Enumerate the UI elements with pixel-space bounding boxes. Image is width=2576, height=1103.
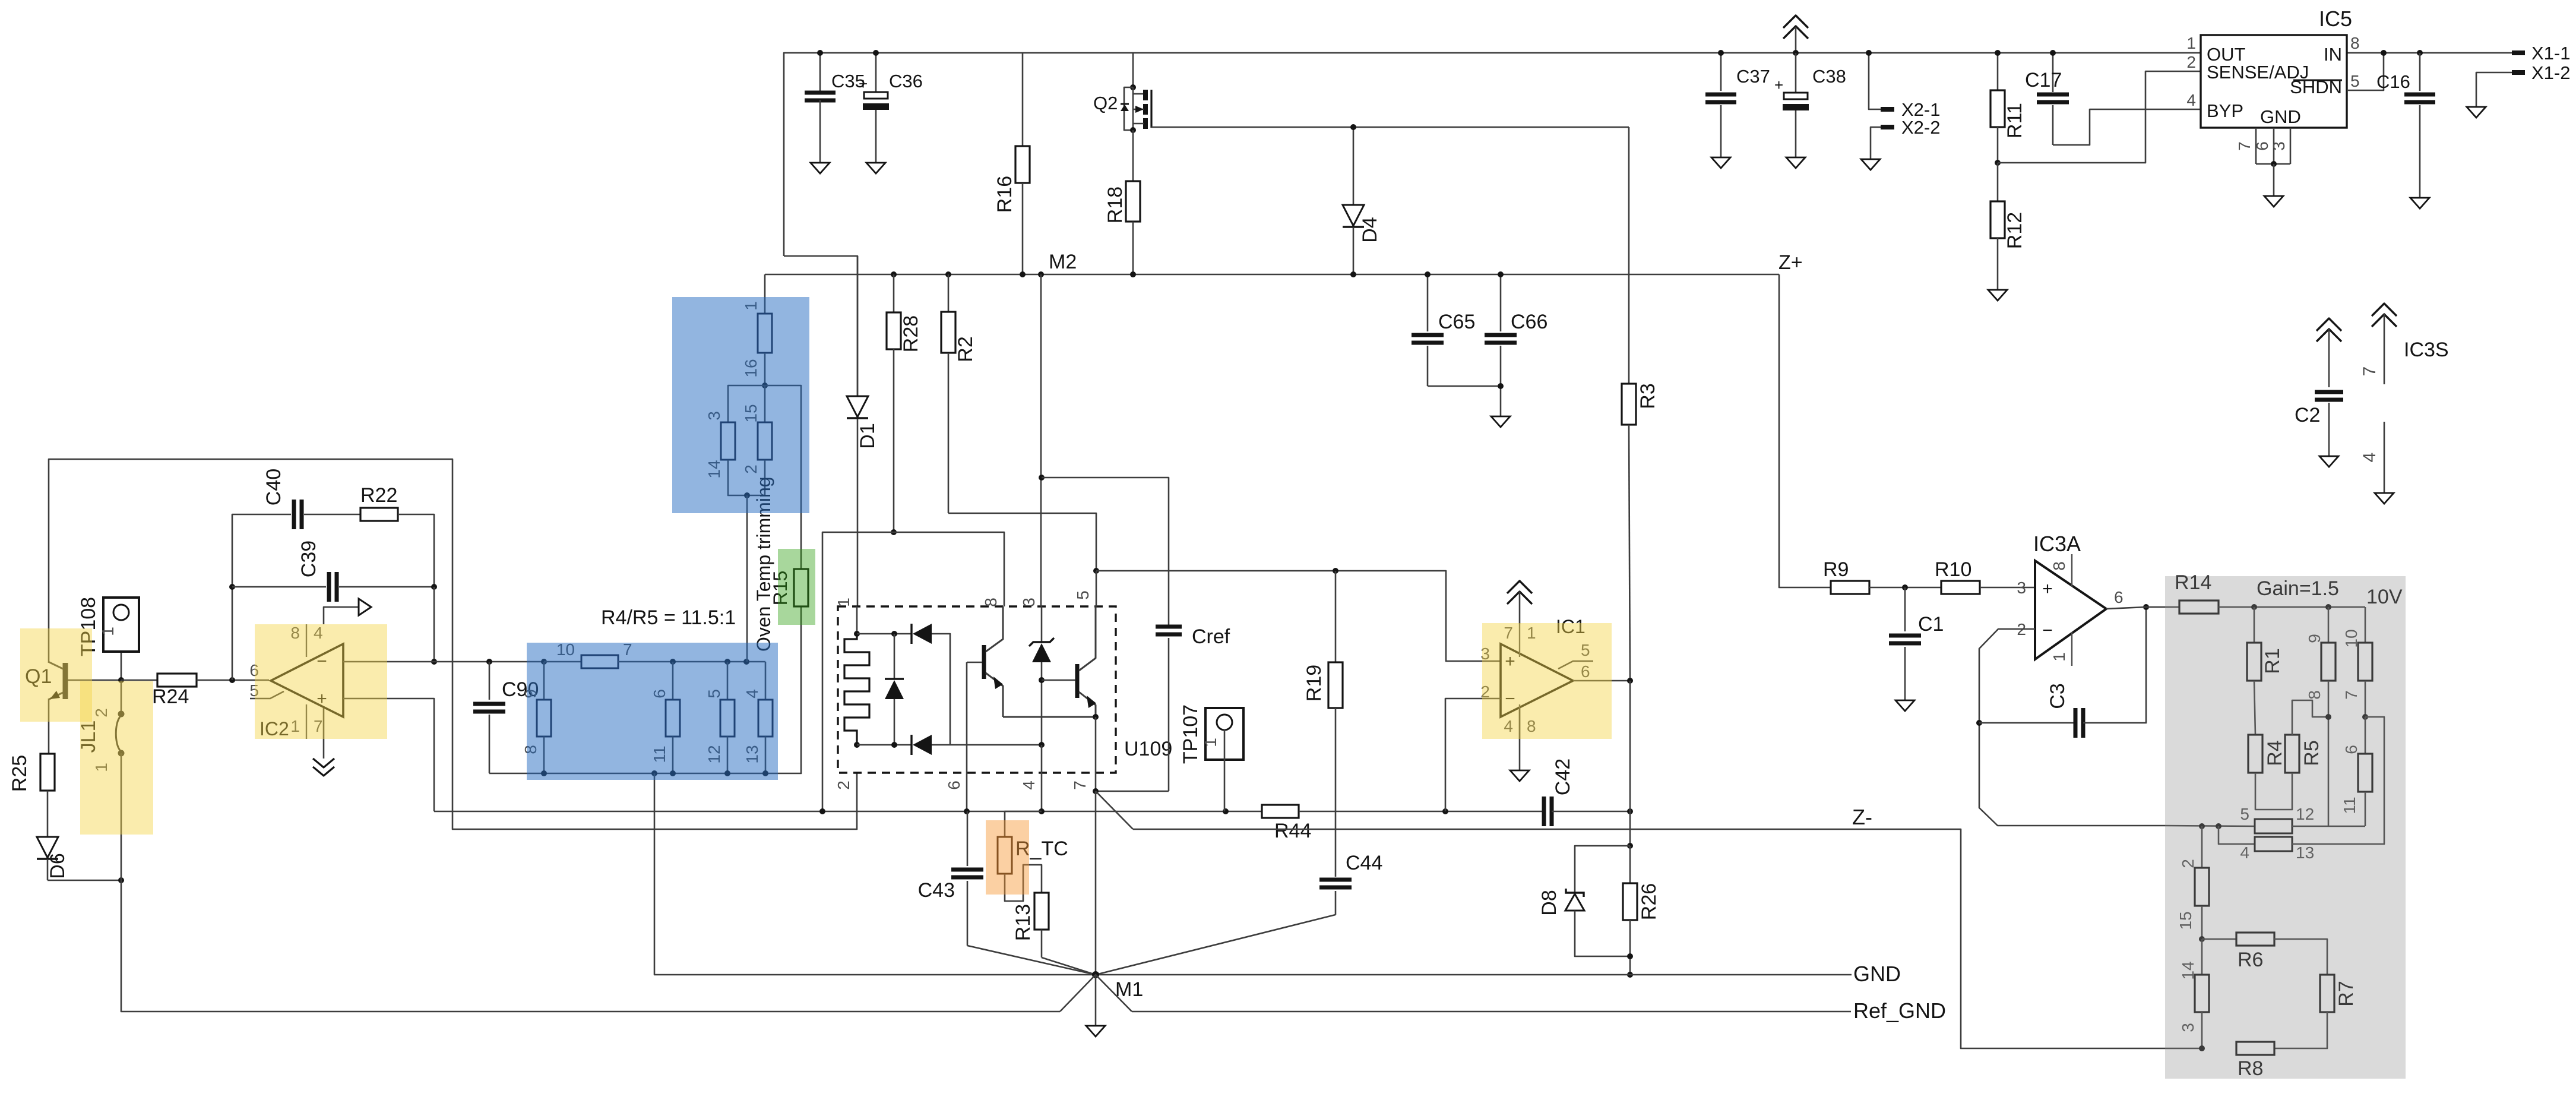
svg-text:C40: C40 [262, 469, 285, 505]
ground X1-2 [2467, 107, 2486, 118]
svg-text:BYP: BYP [2207, 100, 2243, 121]
wire pin5 node to IC1 noninverting [1096, 571, 1501, 661]
power arrow top rail [1783, 15, 1808, 28]
svg-text:R10: R10 [1935, 558, 1971, 581]
wire Cref to pin7 node [1096, 791, 1169, 792]
resistor R3 [1628, 127, 1630, 384]
resistor network RN pins 10-7 [541, 659, 547, 665]
resistor R8 [2236, 1042, 2274, 1055]
ground IC3S [2375, 493, 2394, 504]
U109 heater resistor [856, 606, 858, 634]
resistor R26 [1629, 846, 1631, 883]
svg-text:+: + [1774, 76, 1783, 94]
svg-text:1: 1 [834, 598, 853, 607]
wire R2 to U109 pin5 node [948, 513, 1096, 571]
svg-text:IC3A: IC3A [2033, 532, 2081, 556]
capacitor C39 [229, 584, 235, 590]
highlight yellow Q1 [20, 628, 92, 722]
node IC2 output [229, 677, 235, 683]
connector X1-2 [2476, 72, 2512, 107]
wire inverting net to R network [434, 661, 544, 663]
resistor R14 [2146, 606, 2179, 608]
wire U109 pin5 node [1093, 568, 1099, 574]
U109 internal top rail [857, 633, 911, 635]
wire rail corner to D1 feed [784, 256, 857, 396]
svg-text:U109: U109 [1124, 738, 1172, 760]
wire net M2 / Z+ [765, 274, 1779, 276]
resistor RN2 pins 6-11 [2365, 717, 2366, 754]
ground X2-2 [1861, 159, 1880, 170]
resistor R18 [1132, 130, 1134, 181]
svg-text:1: 1 [2050, 652, 2068, 662]
wire R5 top jog [2292, 700, 2328, 735]
highlight blue RN lower [527, 643, 778, 780]
resistor network RN pins 6-11 [672, 662, 674, 700]
svg-text:GND: GND [1853, 962, 1901, 986]
svg-text:+: + [2042, 579, 2053, 599]
connector X1-1 [2512, 50, 2525, 55]
wire feedback to inverting input [433, 587, 435, 662]
svg-text:Ref_GND: Ref_GND [1853, 998, 1946, 1023]
connector X2-1 [1869, 53, 1881, 109]
wire pin3 node to Cref [1039, 475, 1045, 481]
svg-text:R26: R26 [1638, 883, 1660, 920]
resistor RN2 pins 4-13 [2219, 826, 2255, 844]
resistor R44 [1262, 805, 1299, 818]
wire D6 to JL1 node [48, 880, 121, 881]
diode D8 (zener) [1575, 846, 1630, 893]
wire pin13 to 10-7 chain [2292, 717, 2384, 844]
capacitor C16 [2417, 50, 2423, 56]
svg-text:R24: R24 [152, 685, 189, 708]
resistor R2 [945, 271, 951, 277]
resistor RN2 pins 2-15 [2201, 826, 2203, 868]
node M1 [1092, 971, 1099, 978]
svg-text:−: − [2042, 621, 2053, 640]
wire SHDN pin5 tie to IN [2347, 53, 2384, 90]
svg-text:IC5: IC5 [2319, 7, 2352, 31]
svg-text:X1-2: X1-2 [2531, 62, 2570, 83]
power flag IC2 pin4 [324, 607, 359, 624]
svg-text:R44: R44 [1274, 820, 1311, 842]
svg-text:X2-2: X2-2 [1901, 117, 1940, 138]
highlight yellow IC1 [1482, 623, 1612, 739]
ground C65 C66 [1491, 416, 1510, 427]
svg-text:R2: R2 [954, 336, 977, 362]
svg-text:C44: C44 [1346, 852, 1382, 874]
svg-text:GND: GND [2260, 106, 2301, 127]
resistor RN2 pins 14-3 [2201, 939, 2203, 975]
svg-text:C36: C36 [889, 71, 923, 91]
resistor R19 [1333, 568, 1338, 574]
ground IC5 [2264, 196, 2283, 207]
wire Ref_GND right [1132, 1011, 1851, 1013]
svg-text:7: 7 [2360, 366, 2379, 377]
diode D6 [37, 837, 58, 858]
power arrow IC3S pin7 [2372, 304, 2397, 316]
power arrow IC1 [1507, 581, 1532, 593]
svg-text:C2: C2 [2295, 404, 2320, 426]
wire pin7 to Z- line [1096, 791, 1133, 829]
svg-text:Z-: Z- [1852, 805, 1872, 829]
svg-text:R28: R28 [900, 315, 922, 352]
resistor R6 [2202, 938, 2236, 940]
ground C1 [1895, 700, 1914, 711]
svg-text:4: 4 [2186, 91, 2196, 109]
svg-text:8: 8 [2350, 34, 2360, 52]
U109 transistor T2 [1075, 664, 1080, 698]
capacitor C90 [489, 662, 490, 700]
svg-text:D8: D8 [1538, 890, 1561, 915]
resistor network RN pins 1-16 [758, 314, 772, 353]
svg-text:IC3S: IC3S [2404, 339, 2449, 361]
svg-text:R25: R25 [8, 755, 31, 792]
svg-text:TP107: TP107 [1179, 704, 1202, 764]
wire IC1 output [1573, 680, 1630, 682]
resistor RN2 pins 5-12 [2255, 819, 2292, 833]
resistor R24 [121, 680, 157, 681]
ground C36 [866, 163, 885, 173]
resistor R12 [1995, 160, 2001, 166]
resistor R4 [2254, 681, 2255, 735]
diode D1 [857, 256, 859, 396]
svg-text:X1-1: X1-1 [2531, 43, 2570, 64]
resistor R22 [304, 514, 360, 516]
resistor R10 [1941, 581, 1980, 594]
capacitor C3 [1979, 722, 2075, 724]
svg-text:R18: R18 [1104, 187, 1126, 223]
highlight green R15 [778, 549, 815, 625]
capacitor C42 [1542, 797, 1546, 826]
wire GND line [1096, 974, 1852, 976]
svg-text:D4: D4 [1359, 217, 1381, 242]
svg-text:C43: C43 [918, 879, 955, 902]
resistor network RN pins 4-13 [765, 662, 767, 700]
wire IC2 inverting input pin2 [343, 661, 434, 663]
svg-text:C65: C65 [1438, 311, 1475, 333]
svg-text:C42: C42 [1552, 758, 1574, 795]
resistor network RN pins 9-8 [543, 662, 545, 700]
svg-text:C39: C39 [298, 541, 320, 577]
capacitor C1 [1902, 584, 1908, 590]
op-amp IC1 [1501, 644, 1573, 717]
resistor network RN pins 3-14 [728, 385, 765, 422]
wire C17 to BYP pin4 [2053, 109, 2200, 145]
wire IC3A inverting input [1979, 629, 2165, 826]
resistor RN2 pins 9-8 [2325, 604, 2331, 610]
transistor Q1 (NPN) [63, 663, 68, 699]
svg-text:R11: R11 [2004, 103, 2026, 138]
capacitor C36 (polarized) [875, 53, 877, 92]
resistor R15 [765, 385, 801, 569]
wire T1 emitter to T2 emitter [1003, 716, 1096, 718]
capacitor C43 [967, 811, 969, 866]
wire IC2 pin5 stub [250, 691, 284, 699]
svg-text:1: 1 [1201, 738, 1220, 747]
svg-text:C3: C3 [2046, 683, 2069, 709]
svg-text:2: 2 [834, 780, 853, 790]
svg-text:2: 2 [2186, 53, 2196, 71]
wire M2 to RN pin1 [764, 274, 766, 314]
wire Ref_GND diagonals [1060, 975, 1132, 1012]
svg-text:8: 8 [2050, 561, 2068, 571]
resistor R25 [48, 709, 50, 754]
svg-text:C37: C37 [1736, 66, 1770, 87]
wire IC1 output down [1629, 681, 1631, 846]
capacitor C2 [2315, 390, 2343, 394]
svg-text:4: 4 [2360, 453, 2379, 463]
capacitor C17 [2052, 53, 2054, 92]
wire R4 R5 bottoms [2255, 773, 2292, 810]
wire Q1 collector loop to U109 pin2 [49, 459, 857, 829]
svg-text:R3: R3 [1637, 383, 1659, 409]
wire RN bottom rail [544, 606, 801, 773]
svg-text:D6: D6 [46, 853, 69, 878]
wire IC2 noninverting input pin3 [343, 699, 434, 811]
wire Ref_GND left [121, 880, 1060, 1012]
wire RN bottom to GND line [654, 773, 1096, 975]
U109 pin4 lead [1041, 745, 1043, 811]
wire Z+ drop to R9 [1779, 274, 1831, 587]
dashed box U109 [838, 606, 1116, 773]
svg-text:C17: C17 [2025, 69, 2062, 91]
capacitor C38 (polarized) [1793, 50, 1799, 56]
resistor R9 [1831, 581, 1869, 594]
svg-text:Z+: Z+ [1778, 251, 1803, 274]
wire feedback loop [232, 514, 291, 680]
ground C16 [2410, 198, 2429, 208]
ground C2 [2319, 456, 2338, 467]
capacitor C44 [1319, 878, 1352, 882]
U109 pin6 lead [966, 662, 968, 811]
svg-text:R19: R19 [1303, 665, 1325, 701]
connector X2-2 [1871, 127, 1881, 159]
U109 upper diode [913, 624, 932, 644]
svg-text:R4/R5 = 11.5:1: R4/R5 = 11.5:1 [601, 606, 736, 629]
U109 lower diode [857, 744, 911, 746]
capacitor C35 [819, 53, 821, 93]
svg-text:R13: R13 [1012, 904, 1034, 941]
svg-text:Q2: Q2 [1093, 93, 1118, 113]
highlight yellow JL1 [80, 681, 153, 835]
svg-text:R16: R16 [993, 176, 1016, 213]
svg-text:3: 3 [2270, 141, 2288, 151]
svg-text:C1: C1 [1918, 613, 1944, 636]
ground C37 [1711, 157, 1730, 168]
svg-text:R22: R22 [360, 484, 397, 507]
diode D4 [1353, 127, 1355, 205]
svg-text:5: 5 [1074, 590, 1092, 600]
U109 transistor T1 [982, 645, 986, 679]
svg-text:C66: C66 [1511, 311, 1548, 333]
wire R_TC to R13 [1005, 865, 1042, 901]
capacitor C66 [1500, 274, 1502, 331]
resistor R28 [891, 271, 897, 277]
svg-text:7: 7 [2235, 141, 2254, 151]
svg-text:C38: C38 [1812, 66, 1846, 87]
IC5 ground pins 7 6 3 [2255, 128, 2257, 164]
wire Q2 gate to R3 top [1151, 127, 1629, 128]
wire U109 pin3 to M2 [1038, 271, 1044, 277]
ground C35 [811, 163, 830, 173]
wire network feedback row [2165, 826, 2254, 826]
ground IC1 pin8 [1519, 708, 1521, 770]
svg-text:M1: M1 [1115, 978, 1143, 1001]
testpoint TP107 [1205, 708, 1243, 760]
capacitor C37 [1720, 53, 1722, 91]
wire C43 to M1 [967, 946, 1096, 975]
svg-text:+: + [859, 75, 868, 93]
svg-text:R9: R9 [1823, 558, 1849, 581]
highlight orange R_TC [986, 820, 1029, 895]
supply symbol IC3S pin4 [2384, 422, 2385, 493]
wire IC1 inverting input [1445, 699, 1501, 811]
resistor network RN pins 5-12 [727, 662, 729, 700]
resistor RN2 pins 10-7 [2365, 607, 2366, 643]
resistor R16 [1022, 53, 1024, 146]
op-amp IC3A [2035, 561, 2106, 659]
wire C3 to output [2083, 607, 2146, 723]
jumper JL1 [118, 677, 124, 683]
wire Z- net [1133, 829, 2202, 1048]
resistor R7 [2320, 975, 2334, 1012]
capacitor Cref [1156, 625, 1182, 629]
ground M1 [1095, 975, 1097, 1026]
ground C38 [1786, 157, 1805, 168]
resistor R13 [1034, 893, 1049, 930]
svg-text:R12: R12 [2004, 212, 2026, 249]
wire pin7 to M1 [1095, 791, 1097, 975]
testpoint TP108 [121, 622, 122, 680]
resistor R11 [1997, 53, 1999, 90]
wire IC1 pin5 stub [1558, 661, 1593, 669]
svg-text:IN: IN [2324, 44, 2342, 65]
wire feedback net R44/C42 [434, 811, 1262, 813]
wire R13 to M1 [1042, 957, 1096, 975]
highlight yellow IC2 [255, 624, 387, 739]
U109 middle diode [894, 634, 895, 679]
U109 pin7 lead [1095, 717, 1097, 791]
highlight gray network [2165, 576, 2406, 1079]
wire top supply rail [784, 53, 2512, 256]
wire C42 to IC1 output node [1552, 811, 1630, 813]
wire oven temp trim node [744, 492, 750, 498]
op-amp IC2 [271, 644, 343, 717]
power arrow C2 [2316, 318, 2341, 331]
svg-text:6: 6 [2253, 141, 2271, 151]
svg-text:7: 7 [1071, 780, 1089, 790]
op-amp IC5 box [2201, 35, 2347, 128]
svg-text:C16: C16 [2376, 71, 2410, 92]
resistor R1 [2251, 604, 2257, 610]
svg-text:M2: M2 [1049, 251, 1077, 273]
ground R12 [1988, 290, 2007, 301]
svg-text:8: 8 [982, 598, 1000, 607]
svg-text:1: 1 [2186, 34, 2196, 52]
svg-text:1: 1 [99, 627, 117, 636]
thermistor R_TC [1005, 811, 1042, 837]
svg-text:6: 6 [2114, 588, 2124, 606]
ground IC2 pin7 [323, 708, 325, 758]
capacitor C65 [1427, 274, 1429, 331]
svg-text:6: 6 [945, 780, 963, 790]
wire plus-node to U109 pin8 [822, 532, 1004, 811]
svg-text:3: 3 [1020, 598, 1038, 607]
svg-text:D1: D1 [856, 423, 879, 448]
svg-text:3: 3 [2017, 579, 2026, 597]
highlight blue RN upper [672, 297, 809, 513]
svg-text:4: 4 [1020, 780, 1038, 790]
wire SENSE/ADJ pin2 to R11/R12 node [1998, 71, 2200, 163]
resistor network RN pins 15-2 [764, 385, 766, 422]
svg-text:5: 5 [2350, 72, 2360, 90]
capacitor C40 [292, 500, 296, 529]
resistor R5 [2285, 735, 2299, 773]
U109 zener diode [1041, 606, 1043, 642]
wire C44 to M1 [1096, 915, 1336, 975]
wire IC3A output [2106, 607, 2146, 609]
svg-text:Cref: Cref [1192, 625, 1230, 648]
transistor Q2 (P-MOSFET) [1132, 53, 1134, 87]
